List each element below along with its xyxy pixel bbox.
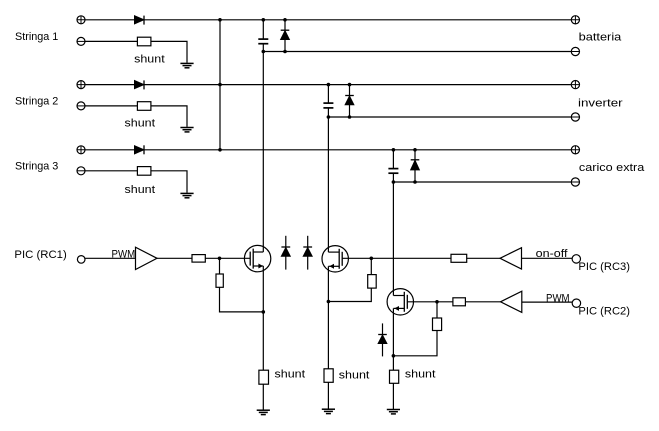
wire row3 positive bus [85,149,571,151]
svg-text:PIC (RC1): PIC (RC1) [14,249,66,261]
junction carico branch top [392,148,396,152]
wire Q1 source to shunt [262,266,264,370]
resistor R6 pulldown [433,318,442,331]
wire gate node to R2 [219,258,221,274]
junction inverter branch top [327,83,331,87]
svg-text:shunt: shunt [125,184,156,196]
terminal Stringa 2 - [77,102,85,110]
wire Q2 source to shunt [327,266,329,369]
junction carico minus start [392,180,396,184]
diode D9 freewheel [378,323,387,356]
wire battery branch upper [262,20,264,39]
terminal inverter + [571,81,579,89]
svg-text:inverter: inverter [578,98,623,110]
svg-text:PIC (RC3): PIC (RC3) [578,261,630,273]
wire R5 to buffer U3 [465,301,500,303]
wire row1 positive bus [85,19,571,21]
wire R1 to Q1 gate [205,257,250,259]
junction bus row3 [218,148,222,152]
terminal Stringa 3 + [77,146,85,154]
junction batteria minus start [262,50,266,54]
MOSFET Q1 [244,245,270,271]
svg-text:PWM: PWM [112,249,136,261]
shunt resistor string 1 [137,37,151,46]
junction bus row1 [218,18,222,22]
terminal batteria - [571,47,579,55]
wire gate node to R6 [436,302,438,318]
svg-text:shunt: shunt [405,369,436,381]
shunt resistor main 3 [390,370,399,383]
junction inverter minus start [327,115,331,119]
wire R2 to Q1 source node [220,287,264,312]
terminal batteria + [571,16,579,24]
svg-text:on-off: on-off [536,248,569,260]
resistor R3 series [451,254,467,262]
wire U1 to R1 [157,257,192,259]
diode D1 string 1 [135,16,144,25]
wire Q2 gate line [342,257,451,259]
diode D5 inverter [345,85,354,117]
wire shunt 2 to ground [327,382,329,408]
shunt resistor main 1 [259,370,269,384]
wire positive bus vertical [219,20,221,150]
shunt resistor main 2 [324,369,333,383]
wire R6 to Q3 source node [393,331,437,356]
junction bus row2 [218,83,222,87]
resistor R2 pulldown [216,274,223,287]
terminal Stringa 1 + [77,16,85,24]
junction D6 top [413,148,417,152]
svg-text:batteria: batteria [579,32,623,44]
wire shunt 3 to ground [392,383,394,409]
resistor R5 series [453,298,466,306]
svg-text:PWM: PWM [546,293,570,305]
wire C1 to Q1 drain [262,44,264,252]
junction D5 bottom [348,115,352,119]
junction D4 bottom [283,50,287,54]
wire Q3 gate line [407,301,453,303]
shunt resistor string 2 [137,102,151,111]
wire Stringa 1 - to shunt [85,40,137,42]
buffer U2 [500,248,522,269]
wire U2 to RC3 terminal [522,257,573,259]
wire gate node to R4 [370,258,372,274]
svg-text:carico extra: carico extra [579,162,645,174]
diode D7 freewheel [281,236,290,270]
wire R4 to Q2 source node [328,288,371,301]
terminal carico extra - [571,178,579,186]
wire C2 to Q2 drain [327,108,329,252]
ground main 1 [257,410,270,414]
capacitor C1 [258,39,268,44]
wire C3 to Q3 drain [392,173,394,295]
diode D3 string 3 [135,145,144,154]
wire Stringa 3 - to shunt [85,170,137,172]
buffer U1 [136,247,158,269]
ground main 3 [387,410,400,414]
wire batteria minus line [263,51,571,53]
wire carico branch upper [392,150,394,169]
svg-text:Stringa 3: Stringa 3 [15,160,58,172]
wire carico minus line [393,181,571,183]
wire row2 positive bus [85,84,571,86]
MOSFET Q3 [387,289,413,315]
svg-text:Stringa 1: Stringa 1 [15,31,58,43]
diode D4 battery [281,20,290,52]
wire shunt 1 to ground [262,384,264,410]
capacitor C3 [388,169,398,174]
ground string 3 [180,193,193,197]
wire inverter minus line [328,116,571,118]
terminal Stringa 3 - [77,167,85,175]
svg-text:shunt: shunt [339,369,370,381]
MOSFET Q2 [322,246,348,272]
wire R3 to buffer U2 [467,257,500,259]
wire Q3 source to shunt [392,308,394,370]
terminal Stringa 1 - [77,37,85,45]
ground string 1 [180,63,193,67]
resistor R1 [192,255,205,263]
terminal PIC RC1 [77,256,85,264]
junction Q1 gate node [218,257,222,261]
wire shunt 1 to ground [151,41,187,62]
shunt resistor string 3 [137,167,151,176]
terminal carico extra + [571,146,579,154]
junction Q1 source node [262,310,266,314]
resistor R4 pulldown [368,275,377,289]
diode D8 freewheel [303,236,312,270]
junction D6 bottom [413,180,417,184]
svg-text:shunt: shunt [125,117,156,129]
svg-text:shunt: shunt [275,369,306,381]
junction Q3 gate node [435,300,439,304]
ground main 2 [322,409,335,413]
terminal inverter - [571,113,579,121]
junction Q2 gate node [370,257,374,261]
junction D5 top [348,83,352,87]
wire Stringa 2 - to shunt [85,105,137,107]
junction D4 top [283,18,287,22]
terminal Stringa 2 + [77,81,85,89]
buffer U3 [501,291,522,312]
wire shunt 2 to ground [151,106,187,127]
wire RC1 to buffer U1 [85,257,136,259]
wire U3 to RC2 terminal [522,301,572,303]
wire inverter branch upper [327,85,329,104]
terminal PIC RC3 [572,255,580,263]
svg-text:shunt: shunt [134,54,165,66]
junction battery branch top [262,18,266,22]
terminal PIC RC2 [572,299,580,307]
junction Q2 source node [327,300,331,304]
capacitor C2 [323,103,333,108]
wire shunt 3 to ground [151,171,187,193]
diode D2 string 2 [135,80,144,89]
svg-text:PIC (RC2): PIC (RC2) [578,305,630,317]
junction Q3 source node [392,354,396,358]
svg-text:Stringa 2: Stringa 2 [15,96,58,108]
diode D6 carico [411,150,420,182]
ground string 2 [180,128,193,132]
